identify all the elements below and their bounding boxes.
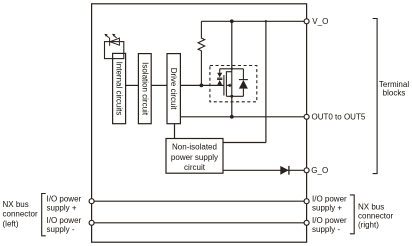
terminal OUT0 to OUT5 [304, 114, 309, 119]
junction: drain node [231, 68, 233, 70]
bracket: terminal blocks [373, 19, 378, 174]
junction: source/OUT [230, 115, 234, 119]
wire: power supply feed horizontal [223, 142, 266, 144]
diode D (G_O reverse protection) [280, 166, 288, 175]
svg-text:power supply: power supply [171, 153, 218, 162]
wire: G_O line [223, 169, 307, 171]
svg-text:V_O: V_O [312, 17, 328, 26]
channel bar [225, 71, 227, 96]
svg-text:connector: connector [358, 211, 393, 220]
body arrow arm [227, 84, 232, 86]
svg-text:supply -: supply - [312, 225, 340, 234]
wire: drive circuit to power supply box [174, 124, 176, 139]
terminal V_O [304, 19, 309, 24]
svg-text:Non-isolated: Non-isolated [172, 142, 217, 151]
terminal I/O power + left [89, 199, 94, 204]
svg-text:supply -: supply - [47, 225, 75, 234]
LED D (photocoupler emitter) [104, 34, 119, 46]
svg-text:supply +: supply + [312, 203, 342, 212]
drain arm [226, 71, 231, 73]
svg-text:I/O power: I/O power [312, 216, 347, 225]
wire: top junction bar [220, 68, 244, 70]
optocoupler LED box [105, 42, 124, 59]
terminal I/O power - right [304, 220, 309, 225]
body diode [242, 69, 244, 80]
svg-text:NX bus: NX bus [358, 203, 384, 212]
svg-text:circuit: circuit [184, 163, 206, 172]
svg-text:Drive circuit: Drive circuit [169, 68, 178, 111]
bracket: NX bus right [350, 195, 354, 234]
terminal I/O power + right [304, 199, 309, 204]
terminal I/O power - left [89, 220, 94, 225]
gate bar [223, 75, 225, 96]
zener pair (gate protection) [219, 69, 221, 73]
junction: drain on V_O line [230, 19, 234, 23]
wire: I/O power supply - rail [92, 222, 307, 224]
svg-text:Internal circuits: Internal circuits [115, 62, 124, 116]
block: Isolation circuit [138, 54, 151, 124]
MOSFET dashed outline box [210, 66, 257, 102]
junction: feed on V_O line [265, 20, 267, 22]
wire: internal->isolation [126, 84, 139, 86]
svg-text:(left): (left) [3, 220, 19, 229]
block: Internal circuits [113, 53, 126, 123]
bracket: NX bus left [42, 194, 46, 236]
block: Non-isolated power supply circuit [166, 139, 223, 174]
svg-text:I/O power: I/O power [47, 194, 82, 203]
junction: resistor/gate [200, 84, 204, 88]
terminal G_O [304, 168, 309, 173]
wire: gate line from drive circuit [180, 84, 224, 86]
wire: isolation->drive [151, 84, 167, 86]
source arm [226, 95, 243, 97]
mosfet vertical [231, 69, 233, 97]
svg-text:NX bus: NX bus [3, 200, 29, 209]
svg-text:supply +: supply + [47, 203, 77, 212]
resistor R (gate pull-up) [198, 21, 205, 85]
svg-text:I/O power: I/O power [312, 194, 347, 203]
wire: OUT line [180, 116, 306, 118]
svg-text:connector: connector [3, 210, 38, 219]
svg-text:Isolation circuit: Isolation circuit [140, 62, 149, 116]
svg-text:(right): (right) [358, 221, 379, 230]
wire: I/O power supply + rail [92, 200, 307, 202]
wire: V_O to MOSFET drain [231, 21, 233, 69]
wire: power supply feed vertical [265, 21, 267, 142]
svg-text:blocks: blocks [383, 89, 406, 98]
svg-text:OUT0 to OUT5: OUT0 to OUT5 [312, 113, 366, 122]
block: Drive circuit [167, 54, 180, 124]
junction: source node [230, 95, 233, 98]
svg-text:G_O: G_O [311, 166, 328, 175]
svg-text:I/O power: I/O power [47, 216, 82, 225]
MOSFET Q internal wiring [217, 69, 248, 97]
unit enclosure box [92, 4, 307, 242]
wire: source down to OUT line [231, 96, 233, 117]
wire: V_O top line [201, 20, 306, 22]
